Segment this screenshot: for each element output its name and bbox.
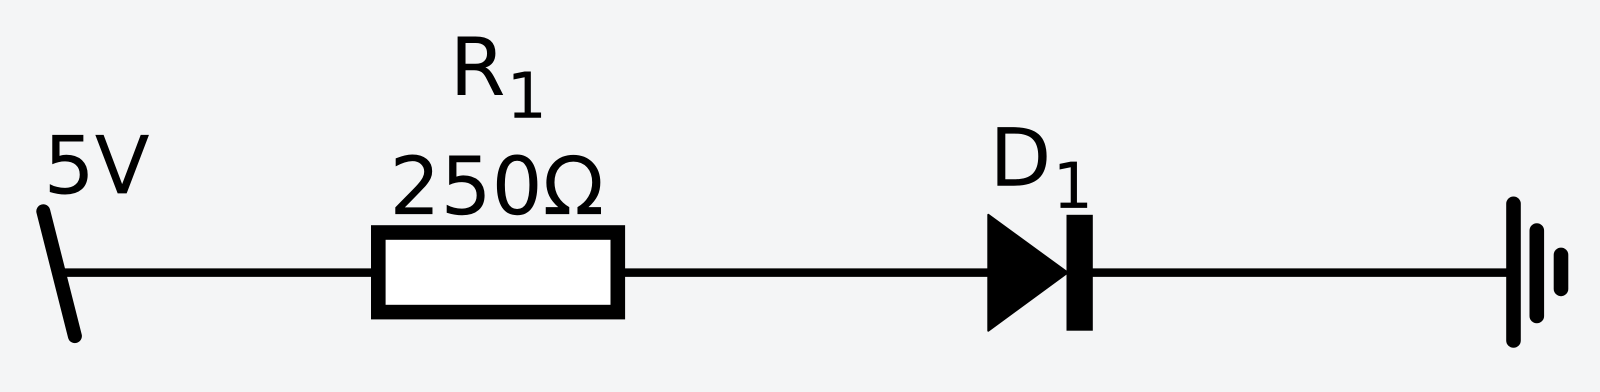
resistor R1 bbox=[378, 233, 618, 313]
ground bar 2 bbox=[1530, 231, 1545, 317]
diode D1 anode triangle bbox=[988, 215, 1067, 331]
value label 250ohm bbox=[395, 155, 601, 216]
wire bbox=[58, 268, 380, 277]
ground bar 1 bbox=[1506, 204, 1521, 341]
label R1 bbox=[458, 36, 541, 117]
wire bbox=[618, 268, 995, 277]
diode D1 cathode bar bbox=[1067, 215, 1093, 331]
source terminal (5V input) bbox=[43, 211, 75, 336]
wire bbox=[1090, 268, 1513, 277]
ground bar 3 bbox=[1554, 255, 1569, 289]
label D1 bbox=[997, 127, 1087, 208]
label 5V bbox=[50, 135, 149, 195]
